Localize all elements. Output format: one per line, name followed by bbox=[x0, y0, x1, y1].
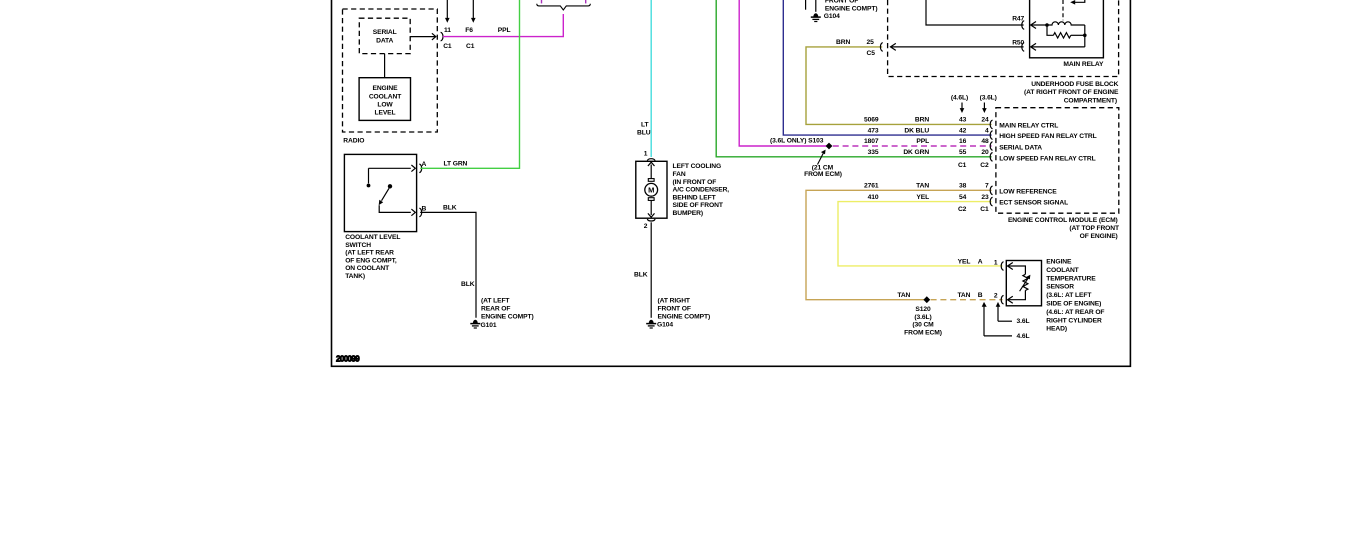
svg-text:LOW SPEED FAN RELAY CTRL: LOW SPEED FAN RELAY CTRL bbox=[999, 155, 1095, 162]
svg-text:SERIAL: SERIAL bbox=[373, 29, 397, 36]
engine coolant low level sub-box bbox=[359, 78, 410, 121]
svg-text:M: M bbox=[648, 186, 654, 195]
svg-text:G104: G104 bbox=[657, 322, 673, 329]
svg-text:ECT SENSOR SIGNAL: ECT SENSOR SIGNAL bbox=[999, 199, 1068, 206]
splice S120 caption bbox=[904, 306, 942, 336]
(3.6L) header arrow bbox=[982, 103, 987, 114]
svg-text:11: 11 bbox=[444, 27, 451, 34]
circuit 1807 PPL row labels bbox=[864, 138, 989, 145]
svg-text:(IN FRONT OF: (IN FRONT OF bbox=[673, 179, 717, 186]
svg-text:SENSOR: SENSOR bbox=[1046, 284, 1074, 291]
left cooling fan box bbox=[636, 161, 667, 218]
svg-text:20: 20 bbox=[981, 149, 989, 156]
svg-text:38: 38 bbox=[959, 183, 967, 190]
svg-text:(3.6L): (3.6L) bbox=[980, 95, 997, 102]
serial data sub-box (dashed) bbox=[359, 18, 410, 53]
svg-text:C1: C1 bbox=[958, 162, 967, 169]
4.6L pointer arrow bbox=[982, 302, 1012, 336]
ECM pin cup HIGH SPEED FAN RELAY CTRL bbox=[990, 131, 992, 139]
svg-text:ENGINE COMPT): ENGINE COMPT) bbox=[658, 313, 711, 320]
ECM pin cup LOW REFERENCE bbox=[990, 186, 992, 194]
S103 distance caption bbox=[804, 165, 842, 178]
ground G101 bbox=[470, 320, 480, 328]
purple wire stub left above brace bbox=[541, 0, 543, 3]
svg-text:ENGINE: ENGINE bbox=[372, 85, 398, 92]
sensor thermistor RT1 bbox=[1023, 274, 1028, 290]
wire LT GRN from switch pin A to top bbox=[420, 0, 519, 168]
svg-text:BUMPER): BUMPER) bbox=[673, 210, 704, 217]
YEL row labels at sensor bbox=[958, 259, 998, 267]
sensor pin 1 internal arrow bbox=[1008, 263, 1026, 275]
G104 top location caption bbox=[824, 0, 878, 20]
svg-text:OF ENG COMPT,: OF ENG COMPT, bbox=[345, 257, 397, 264]
wire TAN dashed from S120 to sensor pin B/2 bbox=[931, 299, 1003, 301]
svg-text:COMPARTMENT): COMPARTMENT) bbox=[1064, 97, 1117, 104]
svg-text:DK GRN: DK GRN bbox=[903, 149, 929, 156]
svg-text:(AT RIGHT: (AT RIGHT bbox=[658, 297, 691, 304]
wire BLK from fan pin 2 to ground G104 bbox=[650, 222, 652, 317]
brace joining wires above bbox=[537, 4, 591, 10]
svg-text:(4.6L): (4.6L) bbox=[951, 95, 968, 102]
G104 location caption (fan) bbox=[658, 297, 711, 320]
resistor junction node bbox=[1083, 34, 1087, 38]
svg-text:7: 7 bbox=[985, 183, 989, 190]
svg-text:FRONT OF: FRONT OF bbox=[658, 305, 691, 312]
wire YEL from ECM pin 54/23 to sensor pin A/1 bbox=[838, 202, 1003, 266]
svg-text:24: 24 bbox=[981, 117, 989, 124]
svg-text:(30 CM: (30 CM bbox=[912, 322, 934, 329]
wire black from C5 to main relay pin R50 (with arrow) bbox=[890, 43, 1023, 50]
wire serial data to coolant low level bbox=[384, 54, 386, 78]
diagram outer border frame bbox=[332, 0, 1131, 366]
splice S120 bbox=[923, 296, 930, 303]
svg-text:PPL: PPL bbox=[498, 27, 511, 34]
svg-text:SIDE OF FRONT: SIDE OF FRONT bbox=[673, 202, 724, 209]
(4.6L) header arrow bbox=[960, 103, 965, 114]
switch pivot contact bbox=[388, 184, 392, 188]
switch pin A connector cup bbox=[419, 164, 421, 172]
svg-text:COOLANT LEVEL: COOLANT LEVEL bbox=[345, 234, 400, 241]
svg-text:200099: 200099 bbox=[336, 355, 360, 364]
svg-text:(AT TOP FRONT: (AT TOP FRONT bbox=[1069, 225, 1120, 232]
serial data label bbox=[373, 29, 397, 44]
G101 location caption bbox=[481, 297, 534, 320]
purple wire stub right above brace bbox=[585, 0, 587, 3]
wire from above into pin F6 (arrow) bbox=[471, 0, 476, 23]
circuit 5069 BRN row labels bbox=[864, 117, 989, 124]
svg-text:54: 54 bbox=[959, 194, 967, 201]
svg-text:LOW: LOW bbox=[377, 101, 393, 108]
fan motor M1 bbox=[645, 179, 658, 201]
svg-text:FROM ECM): FROM ECM) bbox=[804, 171, 842, 178]
relay coil junction node bbox=[1045, 23, 1049, 27]
svg-text:HEAD): HEAD) bbox=[1046, 326, 1067, 333]
svg-text:F6: F6 bbox=[465, 27, 473, 34]
underhood fuse block caption bbox=[1024, 81, 1119, 104]
3.6L pointer arrow bbox=[996, 302, 1012, 321]
svg-text:25: 25 bbox=[867, 39, 875, 46]
radio box (dashed) bbox=[343, 9, 438, 132]
svg-text:23: 23 bbox=[981, 194, 989, 201]
svg-text:BLU: BLU bbox=[637, 129, 651, 136]
ECM box (dashed) bbox=[996, 108, 1119, 214]
svg-text:COOLANT: COOLANT bbox=[369, 93, 402, 100]
wire TAN from ECM pin 38/7 to splice S120 bbox=[806, 190, 992, 299]
svg-text:55: 55 bbox=[959, 149, 967, 156]
svg-text:PPL: PPL bbox=[916, 138, 929, 145]
wire black from above to main relay pin R47 bbox=[926, 0, 1024, 25]
relay resistor R1 (parallel) bbox=[1047, 25, 1085, 38]
main relay pin R50 cup bbox=[1022, 43, 1024, 51]
engine coolant temperature sensor box bbox=[1006, 261, 1041, 306]
svg-text:410: 410 bbox=[868, 194, 879, 201]
svg-text:RADIO: RADIO bbox=[343, 137, 364, 144]
ECM pin cup MAIN RELAY CTRL bbox=[990, 120, 992, 128]
svg-text:TEMPERATURE: TEMPERATURE bbox=[1046, 275, 1096, 282]
coolant level switch box bbox=[344, 154, 416, 231]
svg-text:(AT RIGHT FRONT OF ENGINE: (AT RIGHT FRONT OF ENGINE bbox=[1024, 89, 1119, 96]
svg-text:BEHIND LEFT: BEHIND LEFT bbox=[673, 194, 717, 201]
sensor pin 2 internal arrow bbox=[1008, 290, 1026, 303]
coolant level switch caption bbox=[345, 234, 400, 280]
svg-text:2: 2 bbox=[994, 293, 998, 300]
splice S103 bbox=[826, 143, 833, 150]
svg-text:BLK: BLK bbox=[634, 272, 648, 279]
wire coil to pin R50 bbox=[1084, 25, 1086, 47]
engine coolant temperature sensor caption bbox=[1046, 259, 1104, 333]
svg-text:1: 1 bbox=[644, 151, 648, 158]
main relay box bbox=[1030, 0, 1104, 58]
svg-text:B: B bbox=[422, 206, 427, 213]
svg-text:(AT LEFT REAR: (AT LEFT REAR bbox=[345, 250, 394, 257]
svg-text:16: 16 bbox=[959, 138, 967, 145]
fan pin 1 connector cup bbox=[647, 159, 655, 161]
ECM pin cup ECT SENSOR SIGNAL bbox=[990, 197, 992, 205]
ECM pin function labels bbox=[999, 122, 1096, 206]
svg-text:YEL: YEL bbox=[916, 194, 929, 201]
main relay pin R47 cup bbox=[1022, 21, 1024, 29]
svg-text:A: A bbox=[978, 259, 983, 266]
svg-text:48: 48 bbox=[981, 138, 989, 145]
svg-text:ENGINE COMPT): ENGINE COMPT) bbox=[481, 313, 534, 320]
svg-text:ENGINE COMPT): ENGINE COMPT) bbox=[825, 5, 878, 12]
svg-text:4: 4 bbox=[985, 127, 989, 134]
switch lever with arrow bbox=[379, 188, 389, 205]
relay armature dashed link bbox=[1062, 0, 1064, 20]
svg-text:TAN: TAN bbox=[916, 183, 929, 190]
svg-text:473: 473 bbox=[868, 127, 879, 134]
circuit 410 YEL row labels bbox=[868, 194, 989, 201]
circuit 335 DK GRN row labels bbox=[868, 149, 989, 156]
underhood fuse block box (dashed) bbox=[888, 0, 1119, 77]
svg-text:LT: LT bbox=[641, 122, 649, 129]
svg-text:ENGINE CONTROL MODULE (ECM): ENGINE CONTROL MODULE (ECM) bbox=[1008, 217, 1118, 224]
svg-text:SIDE OF ENGINE): SIDE OF ENGINE) bbox=[1046, 301, 1101, 308]
wire stub from above (left of G104 top) bbox=[805, 0, 807, 10]
main relay pin R47 internal arrow bbox=[1031, 22, 1047, 29]
svg-text:UNDERHOOD FUSE BLOCK: UNDERHOOD FUSE BLOCK bbox=[1031, 81, 1118, 88]
svg-text:42: 42 bbox=[959, 127, 967, 134]
svg-text:C5: C5 bbox=[867, 50, 876, 57]
svg-text:BRN: BRN bbox=[915, 117, 929, 124]
svg-text:S120: S120 bbox=[915, 306, 931, 313]
LT BLU label bbox=[637, 122, 651, 137]
svg-text:DATA: DATA bbox=[376, 37, 393, 44]
wire serial data to radio connector with arrow bbox=[410, 33, 436, 40]
svg-text:COOLANT: COOLANT bbox=[1046, 267, 1079, 274]
radio connector cup C1 bbox=[441, 32, 443, 40]
ECM pin cup SERIAL DATA bbox=[990, 142, 992, 150]
svg-text:RIGHT CYLINDER: RIGHT CYLINDER bbox=[1046, 317, 1102, 324]
svg-text:(AT LEFT: (AT LEFT bbox=[481, 297, 510, 304]
relay coil L1 bbox=[1047, 22, 1085, 25]
svg-text:TANK): TANK) bbox=[345, 273, 365, 280]
svg-text:LEVEL: LEVEL bbox=[374, 110, 395, 117]
thermistor arrow bbox=[1020, 275, 1031, 292]
wire BRN from inline connector C5 to ECM pin 43/24 bbox=[806, 47, 992, 125]
svg-text:REAR OF: REAR OF bbox=[481, 305, 510, 312]
svg-text:(4.6L: AT REAR OF: (4.6L: AT REAR OF bbox=[1046, 309, 1104, 316]
wire from above into pin 11 (arrow) bbox=[445, 0, 450, 23]
sensor pin 1 cup bbox=[1001, 262, 1003, 270]
svg-text:2: 2 bbox=[644, 223, 648, 230]
svg-text:C1: C1 bbox=[980, 206, 989, 213]
svg-text:ON COOLANT: ON COOLANT bbox=[345, 265, 390, 272]
svg-text:(3.6L): (3.6L) bbox=[914, 314, 931, 321]
svg-text:ENGINE: ENGINE bbox=[1046, 259, 1072, 266]
connector C2 C1 labels bbox=[958, 206, 989, 213]
svg-text:3.6L: 3.6L bbox=[1017, 318, 1030, 325]
svg-text:SERIAL DATA: SERIAL DATA bbox=[999, 144, 1042, 151]
wire PPL from radio connector bbox=[443, 14, 564, 37]
svg-text:OF ENGINE): OF ENGINE) bbox=[1080, 233, 1118, 240]
wire BLK from switch pin B to ground G101 bbox=[420, 212, 476, 317]
svg-text:BLK: BLK bbox=[443, 204, 457, 211]
wire LT BLU to left cooling fan bbox=[650, 0, 652, 157]
relay switch arm arrow (top) bbox=[1070, 0, 1085, 5]
svg-text:TAN: TAN bbox=[897, 292, 910, 299]
svg-text:LT GRN: LT GRN bbox=[444, 160, 468, 167]
svg-text:B: B bbox=[978, 292, 983, 299]
svg-text:C2: C2 bbox=[958, 206, 967, 213]
sensor pin 2 cup bbox=[1001, 296, 1003, 304]
main relay pin R50 internal arrow bbox=[1031, 43, 1085, 50]
svg-text:LOW REFERENCE: LOW REFERENCE bbox=[999, 188, 1057, 195]
svg-text:YEL: YEL bbox=[958, 259, 971, 266]
TAN row labels at sensor bbox=[897, 292, 998, 299]
svg-text:5069: 5069 bbox=[864, 117, 879, 124]
svg-text:MAIN RELAY CTRL: MAIN RELAY CTRL bbox=[999, 122, 1058, 129]
svg-text:C2: C2 bbox=[980, 162, 989, 169]
wire PPL to splice S103 bbox=[739, 0, 826, 146]
svg-text:1807: 1807 bbox=[864, 138, 879, 145]
svg-text:(3.6L ONLY) S103: (3.6L ONLY) S103 bbox=[770, 137, 824, 144]
left cooling fan caption bbox=[673, 163, 730, 217]
svg-text:MAIN RELAY: MAIN RELAY bbox=[1063, 61, 1104, 68]
wire PPL dashed from S103 to ECM pin 16/48 bbox=[833, 145, 992, 147]
wire DK GRN to ECM pin 55/20 bbox=[716, 0, 991, 157]
switch pin B connector cup bbox=[419, 208, 421, 216]
connector C1 C2 labels bbox=[958, 162, 989, 169]
svg-text:A: A bbox=[422, 161, 427, 168]
svg-text:43: 43 bbox=[959, 117, 967, 124]
svg-text:DK BLU: DK BLU bbox=[904, 127, 929, 134]
fan pin 2 arrow bbox=[648, 200, 655, 217]
svg-text:335: 335 bbox=[868, 149, 879, 156]
svg-text:FROM ECM): FROM ECM) bbox=[904, 329, 942, 336]
ground G104 (fan) bbox=[646, 320, 656, 328]
switch contact B wire (internal) bbox=[379, 205, 415, 216]
switch contact A wire (internal) bbox=[367, 165, 416, 187]
ECM pin cup LOW SPEED FAN RELAY CTRL bbox=[990, 153, 992, 161]
svg-text:C1: C1 bbox=[443, 43, 452, 50]
svg-text:1: 1 bbox=[994, 260, 998, 267]
wire DK BLU to ECM pin 42/4 bbox=[783, 0, 991, 135]
ground G104 (top, underhood) bbox=[811, 0, 821, 22]
ECM caption bbox=[1008, 217, 1120, 240]
svg-text:BLK: BLK bbox=[461, 281, 475, 288]
svg-text:4.6L: 4.6L bbox=[1017, 333, 1030, 340]
circuit 473 DK BLU row labels bbox=[868, 127, 989, 134]
svg-text:HIGH SPEED FAN RELAY CTRL: HIGH SPEED FAN RELAY CTRL bbox=[999, 133, 1096, 140]
svg-text:SWITCH: SWITCH bbox=[345, 242, 371, 249]
svg-text:FRONT OF: FRONT OF bbox=[825, 0, 858, 5]
inline connector C5 cup bbox=[880, 43, 882, 51]
svg-text:LEFT COOLING: LEFT COOLING bbox=[673, 163, 722, 170]
svg-text:TAN: TAN bbox=[957, 292, 970, 299]
svg-text:(3.6L: AT LEFT: (3.6L: AT LEFT bbox=[1046, 292, 1092, 299]
svg-text:G101: G101 bbox=[481, 322, 497, 329]
svg-text:FAN: FAN bbox=[673, 171, 686, 178]
circuit 2761 TAN row labels bbox=[864, 183, 989, 190]
S103 pointer arrow bbox=[818, 150, 826, 165]
engine coolant low level label bbox=[369, 85, 402, 116]
fan pin 1 arrow bbox=[648, 162, 655, 179]
svg-text:2761: 2761 bbox=[864, 183, 879, 190]
fan pin 2 connector cup bbox=[647, 219, 655, 221]
svg-text:C1: C1 bbox=[466, 43, 475, 50]
svg-text:G104: G104 bbox=[824, 13, 840, 20]
svg-text:BRN: BRN bbox=[836, 39, 850, 46]
svg-text:A/C CONDENSER,: A/C CONDENSER, bbox=[673, 187, 730, 194]
